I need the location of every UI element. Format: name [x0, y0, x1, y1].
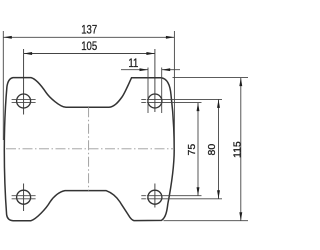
- vertical centerline: [88, 107, 90, 190]
- svg-text:137: 137: [81, 24, 97, 37]
- hole BL: [12, 184, 36, 212]
- hole TR: [148, 49, 162, 112]
- svg-text:75: 75: [186, 144, 198, 156]
- svg-text:115: 115: [232, 141, 244, 158]
- svg-text:80: 80: [206, 144, 218, 156]
- svg-text:11: 11: [128, 57, 138, 70]
- plate outline: [4, 78, 174, 221]
- svg-text:105: 105: [81, 40, 97, 53]
- dimension 105: [24, 53, 155, 55]
- hole BR: [148, 184, 162, 208]
- dimension 80: [141, 99, 222, 198]
- horizontal centerline: [6, 148, 174, 150]
- dimension 115: [164, 78, 249, 221]
- dimension 137: [3, 31, 174, 150]
- dimension 75: [141, 103, 201, 196]
- hole TL: [12, 49, 36, 115]
- dimension 11: [121, 68, 180, 114]
